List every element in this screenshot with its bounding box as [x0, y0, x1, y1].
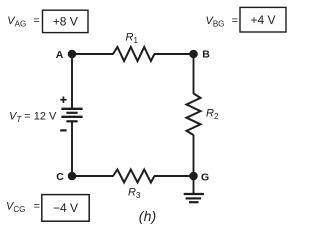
node A — [68, 50, 77, 59]
svg-text:+8 V: +8 V — [53, 14, 78, 28]
resistor R3 — [113, 170, 154, 183]
wire R3 to G — [154, 175, 194, 177]
wire G to ground — [193, 176, 195, 194]
wire A to battery — [71, 54, 73, 109]
node G — [189, 172, 198, 181]
svg-text:B: B — [202, 49, 210, 61]
svg-text:VBG=: VBG= — [206, 15, 239, 29]
minus polarity — [60, 129, 66, 131]
svg-text:C: C — [56, 171, 64, 183]
wire A to R1 — [72, 53, 114, 55]
svg-text:VAG=: VAG= — [7, 15, 39, 29]
wire battery to C — [71, 121, 73, 176]
node B — [189, 50, 198, 59]
plus polarity — [60, 97, 66, 103]
box value -4 V — [42, 195, 89, 222]
resistor R1 — [113, 47, 154, 61]
wire R2 to G — [193, 135, 195, 176]
box value +4 V — [240, 7, 286, 32]
ground — [184, 194, 204, 202]
wire B to R2 — [193, 54, 195, 94]
svg-text:−4 V: −4 V — [53, 201, 78, 215]
svg-text:R1: R1 — [126, 32, 139, 46]
box value +8 V — [43, 10, 89, 32]
svg-text:G: G — [201, 171, 209, 183]
svg-text:+4 V: +4 V — [250, 13, 275, 27]
wire C to R3 — [72, 175, 114, 177]
svg-text:(h): (h) — [139, 209, 157, 224]
svg-text:A: A — [56, 49, 64, 61]
svg-text:VCG=: VCG= — [6, 201, 40, 215]
label VAG — [7, 15, 39, 29]
svg-text:R3: R3 — [128, 186, 141, 200]
wire R1 to B — [154, 53, 194, 55]
svg-text:VT = 12 V: VT = 12 V — [9, 110, 57, 124]
battery VT — [61, 109, 82, 122]
node C — [68, 172, 77, 181]
svg-text:R2: R2 — [206, 108, 219, 122]
label VBG — [206, 15, 239, 29]
resistor R2 — [187, 94, 201, 136]
